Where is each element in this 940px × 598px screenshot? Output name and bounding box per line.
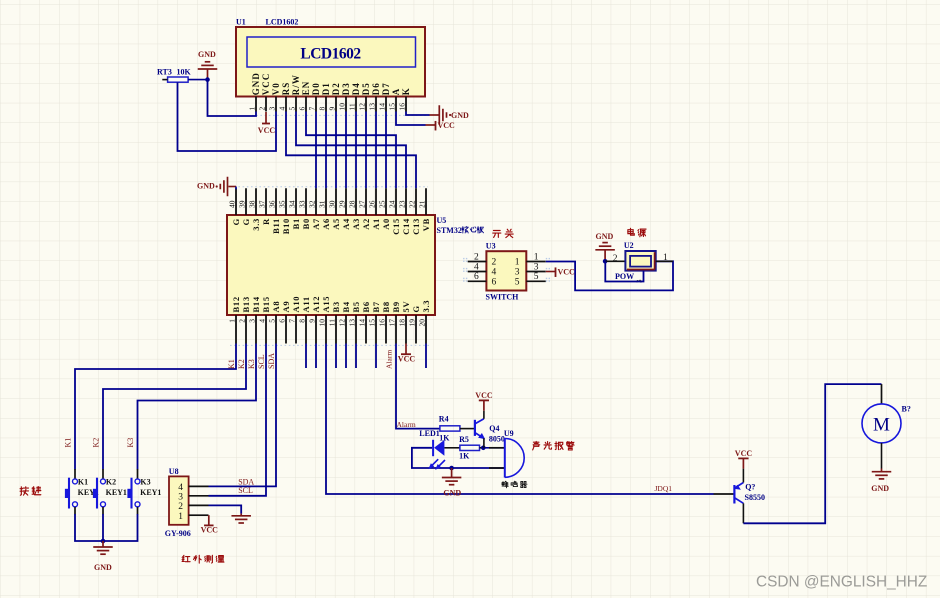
svg-text:K1: K1: [227, 359, 236, 369]
wire R/W net LCD pin5 to STM32 pin23: [296, 112, 406, 189]
svg-text:GND: GND: [443, 489, 461, 498]
svg-text:R4: R4: [439, 415, 449, 424]
svg-text:VB: VB: [421, 218, 431, 231]
svg-text:37: 37: [258, 200, 267, 208]
svg-text:31: 31: [318, 200, 327, 208]
power port VCC at LCD pin2: [265, 112, 267, 124]
svg-text:Alarm: Alarm: [385, 350, 394, 369]
wire GY-906 pin2 to GND: [209, 505, 242, 513]
switch pin 2 left stub: [468, 261, 487, 263]
dotted guide line under LCD pins: [252, 114, 430, 116]
svg-text:2: 2: [492, 258, 497, 268]
wire GND net to LCD pin1: [208, 80, 257, 116]
wire Alarm net STM32 pin17 to R4: [396, 344, 440, 429]
node junction keys GND: [101, 539, 106, 544]
label feng-ming-qi (buzzer) chinese: [502, 483, 504, 485]
svg-text:3: 3: [268, 107, 277, 111]
svg-text:3: 3: [248, 319, 257, 323]
svg-text:20: 20: [418, 319, 427, 327]
svg-text:B9: B9: [391, 301, 401, 312]
svg-text:B1: B1: [291, 218, 301, 229]
pushbutton K3: [137, 469, 139, 479]
wire RT3 right to GND junction: [188, 79, 207, 81]
svg-text:19: 19: [408, 319, 417, 327]
R4 right lead to Q4 base: [460, 428, 475, 430]
motor top stub: [881, 384, 883, 404]
svg-text:R/W: R/W: [291, 74, 301, 95]
svg-text:1: 1: [515, 258, 520, 268]
power port VCC at GY-906 pin1: [208, 515, 210, 525]
svg-text:34: 34: [288, 200, 297, 208]
wire D7 net LCD pin14 to STM32: [385, 112, 387, 189]
label an-jian (keys) chinese: [19, 487, 22, 495]
svg-text:8: 8: [318, 107, 327, 111]
svg-text:G: G: [411, 305, 421, 312]
svg-text:VCC: VCC: [735, 449, 753, 458]
svg-text:VCC: VCC: [475, 391, 493, 400]
wire D1 net LCD pin8 to STM32: [325, 112, 327, 189]
switch U3 body: [486, 251, 526, 290]
svg-text:VCC: VCC: [438, 121, 456, 130]
wire LCD pin15 A to VCC: [396, 112, 426, 126]
svg-text:A11: A11: [301, 296, 311, 312]
ground GND below keys: [102, 541, 104, 547]
node junction U2 GND: [603, 259, 608, 264]
svg-text:VCC: VCC: [201, 526, 219, 535]
svg-text:4: 4: [258, 319, 267, 323]
svg-text:35: 35: [278, 200, 287, 208]
wire JDQ1 net STM32 pin10 to Q7 base: [326, 344, 714, 495]
ground GND right of LCD (rotated earth): [438, 105, 440, 125]
R5 right lead: [480, 447, 484, 449]
svg-text:A2: A2: [361, 218, 371, 230]
svg-text:6: 6: [492, 277, 497, 287]
svg-text:10: 10: [338, 103, 347, 111]
label kai-guan (switch) chinese: [493, 230, 500, 232]
svg-text:POW: POW: [615, 272, 634, 281]
svg-text:LED1: LED1: [419, 429, 439, 438]
svg-text:D3: D3: [341, 82, 351, 95]
STM32 top pin stubs: [236, 188, 426, 215]
pushbutton K1: [74, 469, 76, 479]
STM32 bottom pin stubs: [236, 315, 426, 344]
svg-text:A0: A0: [381, 218, 391, 230]
ground GND at GY-906: [240, 514, 242, 516]
svg-text:D0: D0: [311, 82, 321, 95]
svg-text:A7: A7: [311, 218, 321, 230]
svg-text:U3: U3: [486, 241, 496, 250]
svg-text:C13: C13: [411, 218, 421, 235]
wire GND to pin40: [235, 187, 237, 190]
svg-text:SCL: SCL: [257, 354, 266, 369]
svg-text:S8550: S8550: [745, 493, 765, 502]
svg-text:K3: K3: [126, 438, 135, 448]
svg-text:GND: GND: [251, 72, 261, 95]
node junction RT3-GND: [205, 77, 210, 82]
svg-text:28: 28: [348, 200, 357, 208]
buzzer pin stubs: [489, 447, 505, 449]
svg-text:C15: C15: [391, 218, 401, 235]
R5 left lead: [444, 447, 460, 449]
wire stub below STM32 x=336: [335, 344, 337, 369]
U2 pin1 stub: [656, 260, 673, 262]
LED LED1 symbol: [432, 440, 434, 456]
LED light arrows: [432, 459, 438, 465]
GY-906 pin 3 stub: [189, 495, 209, 497]
switch pin 4 left stub: [468, 271, 487, 273]
svg-text:33: 33: [298, 200, 307, 208]
GY-906 pin 4 stub: [189, 485, 209, 487]
svg-text:D1: D1: [321, 82, 331, 95]
label dian-yuan (power) chinese: [628, 230, 633, 234]
wire SDA net STM32 pin5 to GY-906: [209, 344, 277, 487]
transistor Q7 S8550 symbol: [714, 493, 735, 495]
svg-text:B3: B3: [331, 301, 341, 312]
wire U2 pin2 to GND junction: [605, 260, 625, 262]
svg-text:VCC: VCC: [398, 355, 416, 364]
RT3 left stub: [162, 79, 167, 81]
svg-text:KEY1: KEY1: [106, 488, 127, 497]
svg-text:G: G: [241, 218, 251, 225]
svg-text:A3: A3: [351, 218, 361, 230]
svg-text:6: 6: [474, 272, 479, 282]
wire D3 net LCD pin10 to STM32: [345, 112, 347, 189]
svg-text:D7: D7: [381, 82, 391, 95]
svg-text:K2: K2: [106, 477, 116, 486]
resistor RT3 body: [168, 77, 189, 82]
svg-text:1: 1: [248, 107, 257, 111]
power port VCC at STM32 pin18: [405, 344, 407, 355]
svg-text:9: 9: [308, 319, 317, 323]
svg-text:C14: C14: [401, 218, 411, 235]
wire D2 net LCD pin9 to STM32: [335, 112, 337, 189]
svg-text:LCD1602: LCD1602: [300, 46, 361, 63]
wire Q7 collector to motor: [743, 384, 881, 523]
svg-text:1K: 1K: [459, 452, 470, 461]
svg-text:A15: A15: [321, 296, 331, 313]
svg-text:B12: B12: [231, 296, 241, 312]
LCD pin stubs 1-16: [256, 97, 406, 112]
svg-text:3: 3: [534, 262, 539, 272]
wire D0 net LCD pin7 to STM32: [315, 112, 317, 189]
svg-text:K1: K1: [64, 438, 73, 448]
svg-text:SDA: SDA: [267, 353, 276, 369]
node junction Q4 emitter R5 buzzer: [481, 446, 486, 451]
GY-906 pin 2 stub: [189, 504, 209, 506]
svg-text:30: 30: [328, 200, 337, 208]
motor bottom stub: [881, 443, 883, 469]
svg-text:13: 13: [348, 319, 357, 327]
wire V0 net RT3 to LCD pin3: [178, 82, 277, 151]
svg-text:5: 5: [534, 272, 539, 282]
switch pin 6 left stub: [468, 280, 487, 282]
svg-text:CSDN @ENGLISH_HHZ: CSDN @ENGLISH_HHZ: [756, 574, 927, 591]
svg-text:26: 26: [368, 200, 377, 208]
svg-text:25: 25: [378, 200, 387, 208]
svg-text:LCD1602: LCD1602: [266, 18, 299, 27]
svg-text:2: 2: [178, 502, 183, 512]
LCD inner display box: [247, 37, 416, 67]
wire K1 net STM32 pin1 to key K1: [75, 344, 236, 470]
svg-text:A5: A5: [331, 218, 341, 230]
svg-text:K2: K2: [92, 438, 101, 448]
svg-text:B15: B15: [261, 296, 271, 312]
transistor Q4 8050 symbol: [474, 420, 476, 436]
svg-text:5: 5: [268, 319, 277, 323]
resistor R5 body: [460, 445, 480, 450]
svg-text:D4: D4: [351, 82, 361, 95]
svg-text:5V: 5V: [401, 301, 411, 313]
svg-text:RS: RS: [281, 82, 291, 96]
svg-text:B13: B13: [241, 296, 251, 312]
svg-text:B14: B14: [251, 296, 261, 312]
label hong-wai-ce-wen (IR temperature) chinese: [182, 555, 184, 561]
svg-text:B?: B?: [902, 405, 911, 414]
svg-text:11: 11: [328, 319, 337, 326]
wire LED cathode to GND rail: [412, 448, 505, 468]
svg-text:39: 39: [238, 200, 247, 208]
svg-text:29: 29: [338, 200, 347, 208]
svg-text:36: 36: [268, 200, 277, 208]
ground GND top-left (inverted earth): [207, 69, 209, 80]
svg-text:U8: U8: [169, 467, 179, 476]
svg-text:11: 11: [348, 103, 357, 110]
svg-text:5: 5: [288, 107, 297, 111]
svg-text:40: 40: [228, 200, 237, 208]
svg-text:K3: K3: [140, 477, 150, 486]
svg-text:Q?: Q?: [745, 482, 755, 491]
wire EN net LCD pin6 to STM32 pin24: [306, 112, 396, 189]
svg-text:A8: A8: [271, 301, 281, 313]
svg-text:27: 27: [358, 200, 367, 208]
wire stub below STM32 pin20: [425, 344, 427, 369]
wire K2 net STM32 pin2 to key K2: [103, 344, 246, 470]
switch pin 5 right stub: [526, 280, 546, 282]
wire U2 pin3 to GND: [605, 261, 643, 281]
svg-text:24: 24: [388, 200, 397, 208]
ground GND below motor: [881, 469, 883, 472]
svg-text:B4: B4: [341, 301, 351, 312]
wire K3 net STM32 pin3 to key K3: [138, 344, 257, 470]
svg-text:5: 5: [515, 277, 520, 287]
svg-text:16: 16: [378, 319, 387, 327]
wire RS net LCD pin4 to STM32 pin22: [286, 112, 416, 189]
svg-text:RT3: RT3: [157, 68, 172, 77]
svg-text:23: 23: [398, 200, 407, 208]
svg-text:22: 22: [408, 200, 417, 208]
svg-text:K: K: [401, 87, 411, 95]
svg-text:15: 15: [388, 103, 397, 111]
power port VCC right of LCD: [434, 124, 436, 126]
motor B? symbol: [862, 404, 901, 443]
svg-text:1: 1: [178, 512, 183, 522]
svg-text:14: 14: [358, 319, 367, 327]
svg-text:6: 6: [298, 107, 307, 111]
svg-text:1K: 1K: [439, 433, 450, 442]
svg-text:VCC: VCC: [558, 268, 576, 277]
wire D4 net LCD pin11 to STM32: [355, 112, 357, 189]
STM32 core board U5 body: [227, 215, 435, 315]
svg-text:13: 13: [368, 103, 377, 111]
svg-text:A12: A12: [311, 296, 321, 313]
svg-text:32: 32: [308, 200, 317, 208]
svg-text:12: 12: [358, 103, 367, 111]
U2 inner box: [630, 256, 651, 267]
ground GND at U2 (inverted earth): [604, 250, 606, 261]
svg-text:GND: GND: [596, 232, 614, 241]
ground GND at LED rail: [451, 468, 453, 478]
svg-text:B10: B10: [281, 218, 291, 234]
svg-text:4: 4: [492, 268, 497, 278]
svg-text:7: 7: [288, 319, 297, 323]
svg-text:V0: V0: [271, 82, 281, 95]
svg-text:16: 16: [398, 103, 407, 111]
buzzer U9 symbol: [504, 438, 506, 477]
svg-text:B8: B8: [381, 301, 391, 312]
svg-text:38: 38: [248, 200, 257, 208]
wire stub below STM32 x=306: [305, 344, 307, 369]
svg-text:VCC: VCC: [258, 126, 276, 135]
svg-text:A1: A1: [371, 218, 381, 230]
svg-text:A4: A4: [341, 218, 351, 230]
wire stub below STM32 x=316: [315, 344, 317, 369]
svg-text:B7: B7: [371, 301, 381, 312]
wire switch pin1 to U2 pin1: [546, 261, 673, 290]
svg-text:M: M: [873, 414, 890, 435]
svg-text:R: R: [261, 218, 271, 225]
power module U2 body: [625, 251, 655, 271]
svg-text:GND: GND: [871, 484, 889, 493]
svg-text:A9: A9: [281, 301, 291, 313]
svg-text:A10: A10: [291, 296, 301, 313]
svg-text:3: 3: [178, 493, 183, 503]
svg-text:Q4: Q4: [489, 424, 499, 433]
svg-text:10K: 10K: [177, 68, 192, 77]
svg-text:U5: U5: [437, 216, 447, 225]
svg-text:1: 1: [534, 252, 539, 262]
svg-text:R5: R5: [459, 435, 469, 444]
power port VCC at switch pin3: [546, 271, 556, 273]
svg-text:GND: GND: [94, 563, 112, 572]
wire LCD pin16 K to GND: [406, 112, 430, 116]
svg-text:K1: K1: [78, 477, 88, 486]
svg-text:K3: K3: [247, 359, 256, 369]
svg-text:2: 2: [238, 319, 247, 323]
LCD module U1 body: [236, 27, 425, 97]
svg-text:15: 15: [368, 319, 377, 327]
svg-text:18: 18: [398, 319, 407, 327]
label sheng-guang-bao-jing (sound-light alarm) chinese: [533, 441, 539, 443]
svg-text:9: 9: [328, 107, 337, 111]
svg-text:2: 2: [258, 107, 267, 111]
switch pin 1 right stub: [526, 261, 546, 263]
wire stub below STM32 x=346: [345, 344, 347, 369]
svg-text:GY-906: GY-906: [165, 529, 191, 538]
svg-text:GND: GND: [451, 111, 469, 120]
svg-text:U9: U9: [504, 429, 514, 438]
wire D6 net LCD pin13 to STM32: [375, 112, 377, 189]
svg-text:B0: B0: [301, 218, 311, 229]
GY-906 sensor U8 body: [169, 476, 189, 524]
svg-text:17: 17: [388, 319, 397, 327]
power port VCC at Q7: [742, 458, 744, 468]
svg-text:B6: B6: [361, 301, 371, 312]
svg-text:A: A: [391, 88, 401, 96]
svg-text:D2: D2: [331, 82, 341, 95]
svg-text:12: 12: [338, 319, 347, 327]
svg-text:EN: EN: [301, 81, 311, 96]
svg-text:B11: B11: [271, 218, 281, 234]
svg-text:21: 21: [418, 200, 427, 208]
svg-text:D6: D6: [371, 82, 381, 95]
wire R5 to buzzer plus: [483, 447, 505, 449]
pushbutton K2: [102, 469, 104, 479]
svg-text:7: 7: [308, 107, 317, 111]
svg-text:6: 6: [278, 319, 287, 323]
wire keys common to GND: [75, 514, 138, 541]
GY-906 pin 1 stub: [189, 514, 209, 516]
svg-text:3.3: 3.3: [251, 218, 261, 231]
svg-text:VCC: VCC: [261, 72, 271, 95]
dotted guide line above STM32 top pins: [230, 186, 428, 188]
svg-text:SCL: SCL: [238, 486, 253, 495]
wire stub below STM32 x=376: [375, 344, 377, 369]
svg-text:2: 2: [474, 252, 479, 262]
node junction GND rail: [449, 466, 454, 471]
svg-text:GND: GND: [197, 182, 215, 191]
svg-text:10: 10: [318, 319, 327, 327]
wire stub below STM32 x=356: [355, 344, 357, 369]
svg-text:STM32: STM32: [437, 226, 462, 235]
svg-text:8: 8: [298, 319, 307, 323]
svg-text:14: 14: [378, 103, 387, 111]
svg-text:1: 1: [228, 319, 237, 323]
svg-text:GND: GND: [198, 50, 216, 59]
svg-text:3: 3: [515, 268, 520, 278]
svg-text:G: G: [231, 218, 241, 225]
svg-text:4: 4: [474, 262, 479, 272]
svg-text:KEY1: KEY1: [140, 488, 161, 497]
svg-text:3.3: 3.3: [421, 300, 431, 313]
svg-text:K2: K2: [237, 359, 246, 369]
svg-text:U1: U1: [236, 18, 246, 27]
svg-text:Alarm: Alarm: [397, 420, 416, 429]
svg-text:B5: B5: [351, 301, 361, 312]
wire SCL net STM32 pin4 to GY-906: [209, 344, 267, 496]
switch pin 3 right stub: [526, 271, 546, 273]
svg-text:U2: U2: [624, 241, 634, 250]
svg-text:JDQ1: JDQ1: [655, 484, 673, 493]
dotted guide line under STM32 bottom pins: [230, 344, 430, 346]
svg-text:D5: D5: [361, 82, 371, 95]
svg-text:2: 2: [613, 254, 618, 264]
power port VCC at Q4: [483, 400, 485, 410]
wire D5 net LCD pin12 to STM32: [365, 112, 367, 189]
svg-text:A6: A6: [321, 218, 331, 230]
svg-text:SWITCH: SWITCH: [486, 293, 520, 302]
resistor R4 body: [440, 426, 460, 431]
svg-text:4: 4: [278, 107, 287, 111]
svg-text:8050: 8050: [489, 434, 505, 443]
